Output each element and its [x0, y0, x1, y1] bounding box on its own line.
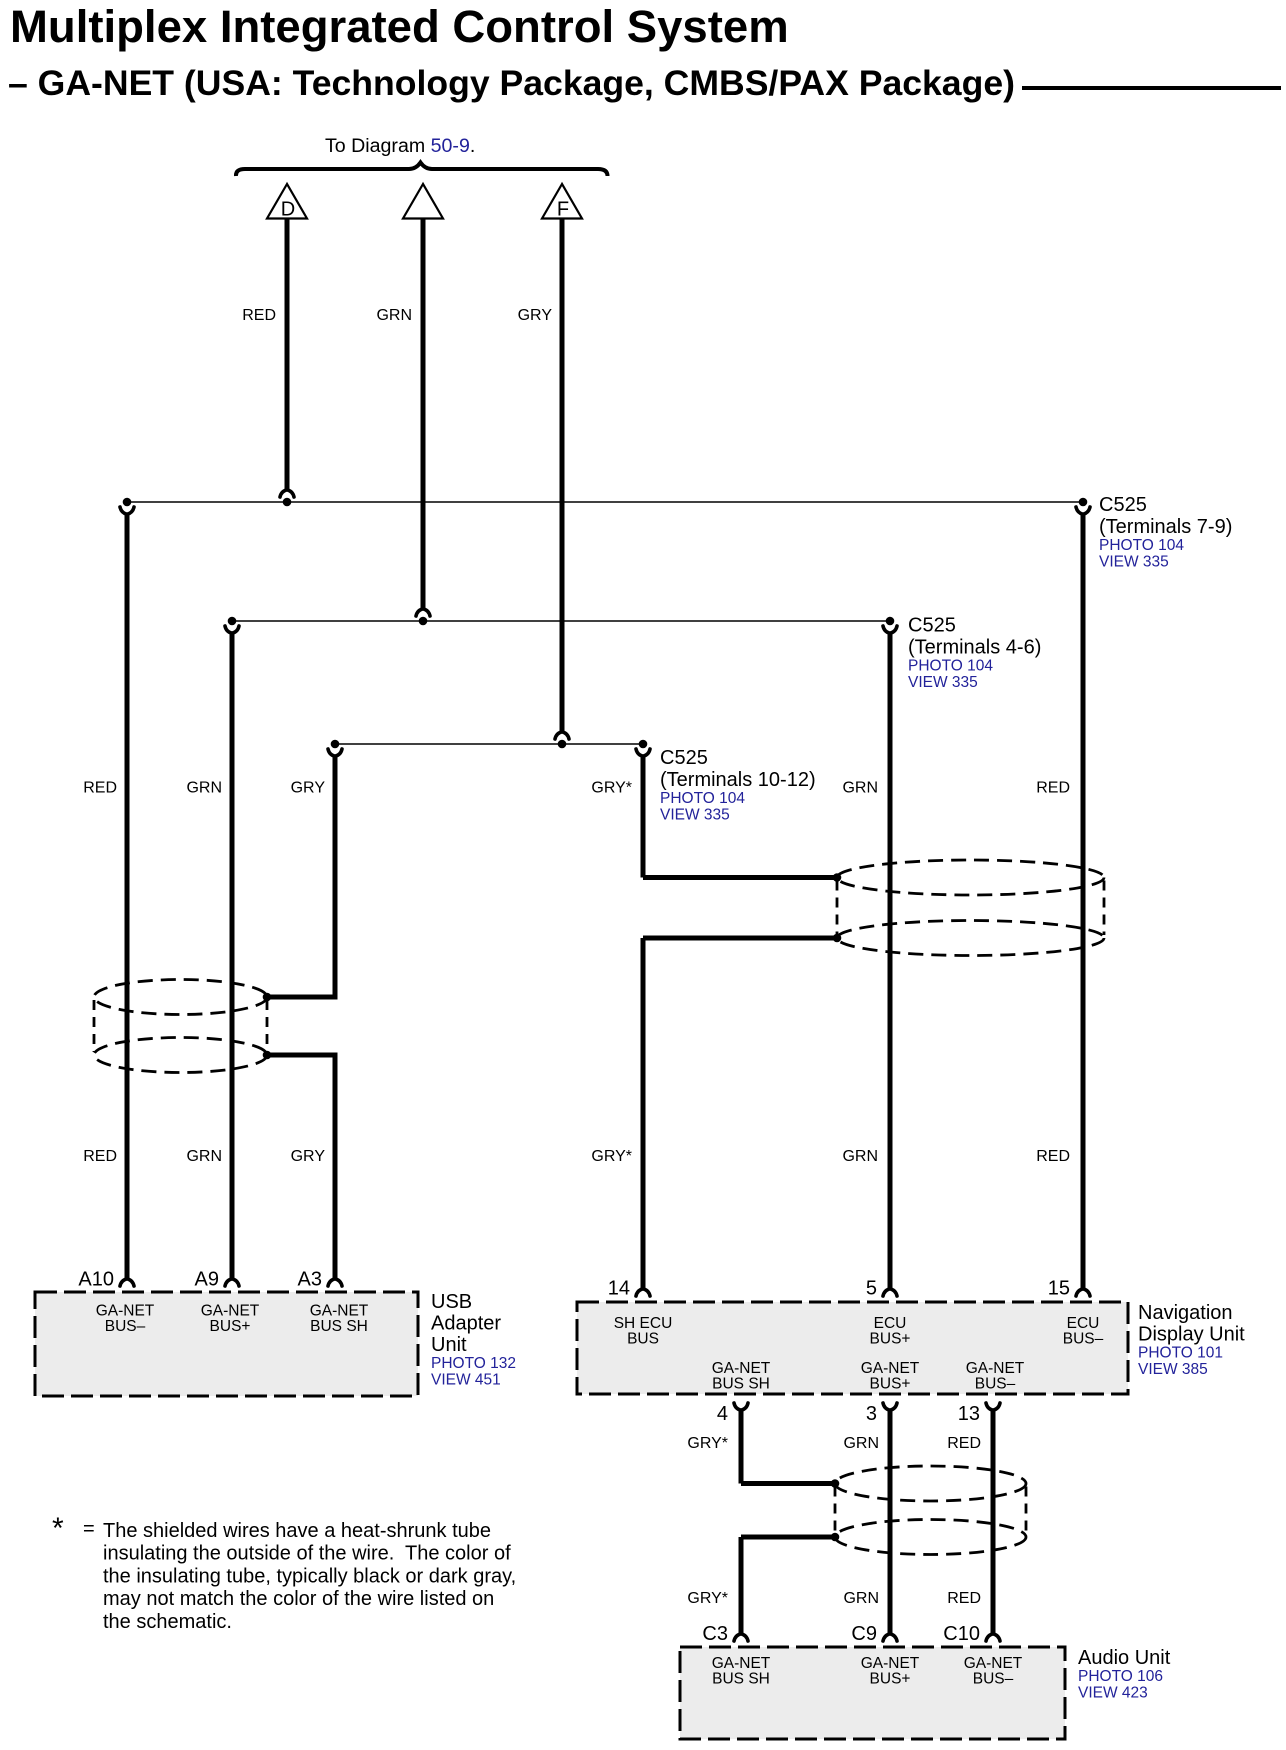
svg-text:BUS: BUS [627, 1331, 659, 1348]
svg-text:Display Unit: Display Unit [1138, 1324, 1245, 1346]
svg-text:GA-NET: GA-NET [712, 1360, 771, 1377]
svg-text:VIEW 335: VIEW 335 [1099, 554, 1169, 571]
svg-text:Adapter: Adapter [431, 1313, 501, 1335]
svg-text:BUS+: BUS+ [210, 1318, 251, 1335]
svg-text:BUS SH: BUS SH [310, 1318, 368, 1335]
svg-text:PHOTO 104: PHOTO 104 [908, 658, 993, 675]
svg-text:VIEW 423: VIEW 423 [1078, 1685, 1148, 1702]
svg-text:C525: C525 [660, 747, 708, 769]
svg-text:3: 3 [866, 1403, 877, 1425]
svg-text:(Terminals 10-12): (Terminals 10-12) [660, 769, 816, 791]
svg-text:RED: RED [83, 1148, 117, 1165]
svg-text:VIEW 385: VIEW 385 [1138, 1361, 1208, 1378]
svg-text:BUS–: BUS– [105, 1318, 146, 1335]
svg-text:GA-NET: GA-NET [861, 1360, 920, 1377]
svg-text:GRY: GRY [291, 780, 326, 797]
svg-text:4: 4 [717, 1403, 728, 1425]
svg-text:15: 15 [1048, 1278, 1070, 1300]
svg-text:C9: C9 [851, 1623, 877, 1645]
svg-text:13: 13 [958, 1403, 980, 1425]
svg-text:GRY: GRY [291, 1148, 326, 1165]
svg-text:VIEW 335: VIEW 335 [660, 807, 730, 824]
svg-text:PHOTO 104: PHOTO 104 [1099, 537, 1184, 554]
svg-text:To Diagram 50-9.: To Diagram 50-9. [325, 135, 475, 157]
svg-text:A10: A10 [78, 1269, 114, 1291]
svg-text:GRN: GRN [842, 780, 878, 797]
svg-text:BUS–: BUS– [1063, 1331, 1104, 1348]
svg-text:*: * [52, 1512, 64, 1545]
svg-text:F: F [557, 199, 569, 221]
svg-text:may not match the color of the: may not match the color of the wire list… [103, 1588, 494, 1610]
svg-text:BUS+: BUS+ [870, 1671, 911, 1688]
svg-text:GRN: GRN [843, 1590, 879, 1607]
svg-text:C3: C3 [702, 1623, 728, 1645]
svg-text:GA-NET: GA-NET [712, 1655, 771, 1672]
svg-text:– GA-NET (USA: Technology Pack: – GA-NET (USA: Technology Package, CMBS/… [8, 63, 1015, 103]
svg-text:GA-NET: GA-NET [964, 1655, 1023, 1672]
svg-text:Unit: Unit [431, 1334, 467, 1356]
svg-text:Audio Unit: Audio Unit [1078, 1647, 1171, 1669]
svg-text:RED: RED [1036, 1148, 1070, 1165]
svg-text:GRY*: GRY* [591, 780, 632, 797]
svg-text:Multiplex Integrated Control S: Multiplex Integrated Control System [10, 1, 789, 52]
svg-text:PHOTO 104: PHOTO 104 [660, 790, 745, 807]
svg-text:GA-NET: GA-NET [201, 1303, 260, 1320]
svg-text:GRN: GRN [843, 1435, 879, 1452]
svg-text:D: D [281, 199, 295, 221]
svg-text:RED: RED [947, 1590, 981, 1607]
svg-text:BUS SH: BUS SH [712, 1376, 770, 1393]
svg-text:RED: RED [947, 1435, 981, 1452]
svg-text:VIEW 335: VIEW 335 [908, 674, 978, 691]
svg-text:RED: RED [242, 307, 276, 324]
svg-text:PHOTO 132: PHOTO 132 [431, 1355, 516, 1372]
svg-text:GRN: GRN [186, 780, 222, 797]
svg-text:GRY: GRY [518, 307, 553, 324]
svg-text:GRN: GRN [376, 307, 412, 324]
svg-text:ECU: ECU [1067, 1315, 1100, 1332]
svg-text:the insulating tube, typically: the insulating tube, typically black or … [103, 1565, 516, 1587]
svg-text:BUS SH: BUS SH [712, 1671, 770, 1688]
svg-text:SH ECU: SH ECU [614, 1315, 673, 1332]
svg-text:(Terminals 4-6): (Terminals 4-6) [908, 637, 1041, 659]
svg-text:GRY*: GRY* [591, 1148, 632, 1165]
svg-text:BUS+: BUS+ [870, 1331, 911, 1348]
svg-text:14: 14 [608, 1278, 630, 1300]
svg-text:GRN: GRN [186, 1148, 222, 1165]
svg-text:=: = [83, 1518, 95, 1540]
svg-text:GA-NET: GA-NET [861, 1655, 920, 1672]
svg-text:BUS–: BUS– [975, 1376, 1016, 1393]
svg-text:GA-NET: GA-NET [966, 1360, 1025, 1377]
svg-text:(Terminals 7-9): (Terminals 7-9) [1099, 516, 1232, 538]
svg-text:GA-NET: GA-NET [310, 1303, 369, 1320]
svg-text:BUS–: BUS– [973, 1671, 1014, 1688]
svg-text:insulating the outside of the: insulating the outside of the wire. The … [103, 1543, 511, 1565]
svg-text:C525: C525 [908, 615, 956, 637]
svg-text:VIEW 451: VIEW 451 [431, 1372, 501, 1389]
svg-text:GRN: GRN [842, 1148, 878, 1165]
svg-text:A9: A9 [195, 1269, 219, 1291]
svg-text:C10: C10 [943, 1623, 980, 1645]
svg-text:GRY*: GRY* [687, 1590, 728, 1607]
svg-text:A3: A3 [298, 1269, 322, 1291]
svg-text:C525: C525 [1099, 494, 1147, 516]
svg-text:GRY*: GRY* [687, 1435, 728, 1452]
svg-text:The shielded wires have a heat: The shielded wires have a heat-shrunk tu… [103, 1520, 491, 1542]
svg-text:RED: RED [1036, 780, 1070, 797]
svg-text:USB: USB [431, 1291, 472, 1313]
svg-text:GA-NET: GA-NET [96, 1303, 155, 1320]
svg-text:PHOTO 101: PHOTO 101 [1138, 1345, 1223, 1362]
svg-text:PHOTO 106: PHOTO 106 [1078, 1668, 1163, 1685]
svg-text:Navigation: Navigation [1138, 1302, 1233, 1324]
svg-text:the schematic.: the schematic. [103, 1611, 232, 1633]
svg-text:ECU: ECU [874, 1315, 907, 1332]
svg-text:BUS+: BUS+ [870, 1376, 911, 1393]
svg-text:5: 5 [866, 1278, 877, 1300]
svg-text:RED: RED [83, 780, 117, 797]
